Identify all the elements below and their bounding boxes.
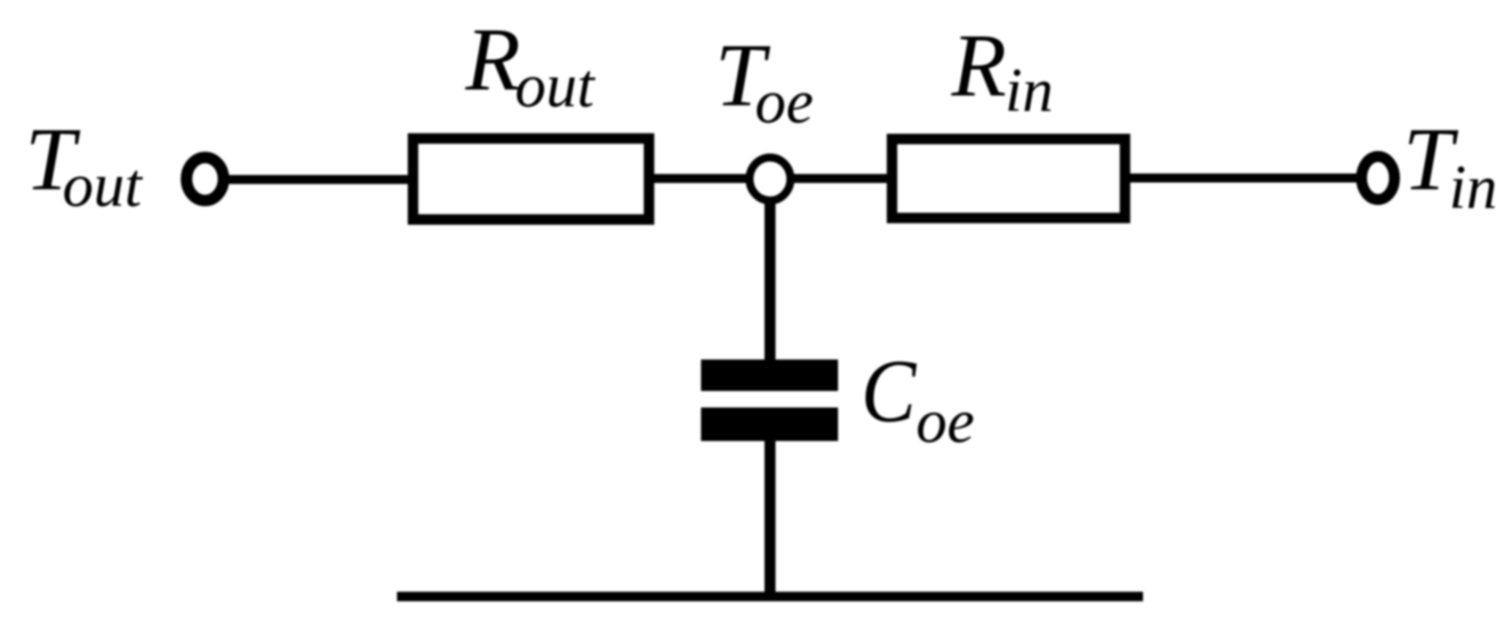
svg-text:oe: oe (916, 388, 975, 456)
label T_oe (715, 27, 814, 137)
svg-text:R: R (951, 17, 1007, 116)
label T_out (25, 111, 144, 221)
label T_in (1403, 111, 1497, 223)
wire R_out to node T_oe (654, 174, 752, 183)
svg-text:in: in (1005, 57, 1053, 125)
capacitor C_oe top plate (701, 360, 838, 392)
wire T_out to R_out (223, 175, 412, 184)
svg-text:C: C (861, 342, 917, 441)
svg-text:in: in (1449, 154, 1497, 222)
ground (397, 592, 1143, 602)
svg-text:R: R (465, 11, 521, 110)
resistor R_out (413, 139, 649, 220)
label C_oe (861, 342, 975, 456)
wire node T_oe to capacitor (765, 200, 776, 360)
svg-text:out: out (515, 53, 596, 121)
capacitor C_oe bottom plate (701, 408, 838, 442)
label R_out (465, 11, 597, 121)
svg-text:out: out (63, 152, 144, 220)
wire node T_oe to R_in (788, 174, 890, 183)
wire R_in to T_in (1130, 174, 1360, 183)
node T_oe (750, 158, 791, 201)
wire capacitor to ground (765, 441, 776, 596)
resistor R_in (892, 139, 1125, 218)
label R_in (951, 17, 1054, 126)
svg-text:oe: oe (755, 69, 814, 137)
terminal T_in (1362, 157, 1395, 200)
terminal T_out (187, 158, 224, 201)
